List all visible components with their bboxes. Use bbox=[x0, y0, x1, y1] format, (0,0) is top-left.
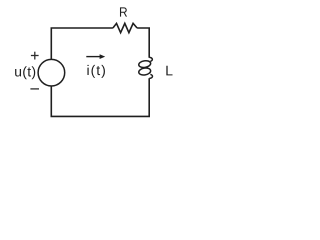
resistor R bbox=[113, 23, 137, 32]
wire: inductor bottom to bottom-right corner, bottom wire, up to source bottom bbox=[51, 78, 149, 116]
voltage source U1 bbox=[38, 59, 65, 86]
minus sign bbox=[30, 88, 39, 90]
inductor L coil bbox=[138, 57, 152, 78]
label R bbox=[120, 7, 127, 16]
label L bbox=[166, 66, 172, 76]
wire: resistor to top-right corner down to inductor top bbox=[137, 28, 149, 58]
current arrow i(t) bbox=[86, 56, 101, 58]
wire: source top up and across to resistor bbox=[51, 28, 113, 59]
label i(t) bbox=[87, 65, 105, 78]
label u(t) bbox=[15, 66, 35, 79]
plus sign bbox=[31, 52, 39, 60]
